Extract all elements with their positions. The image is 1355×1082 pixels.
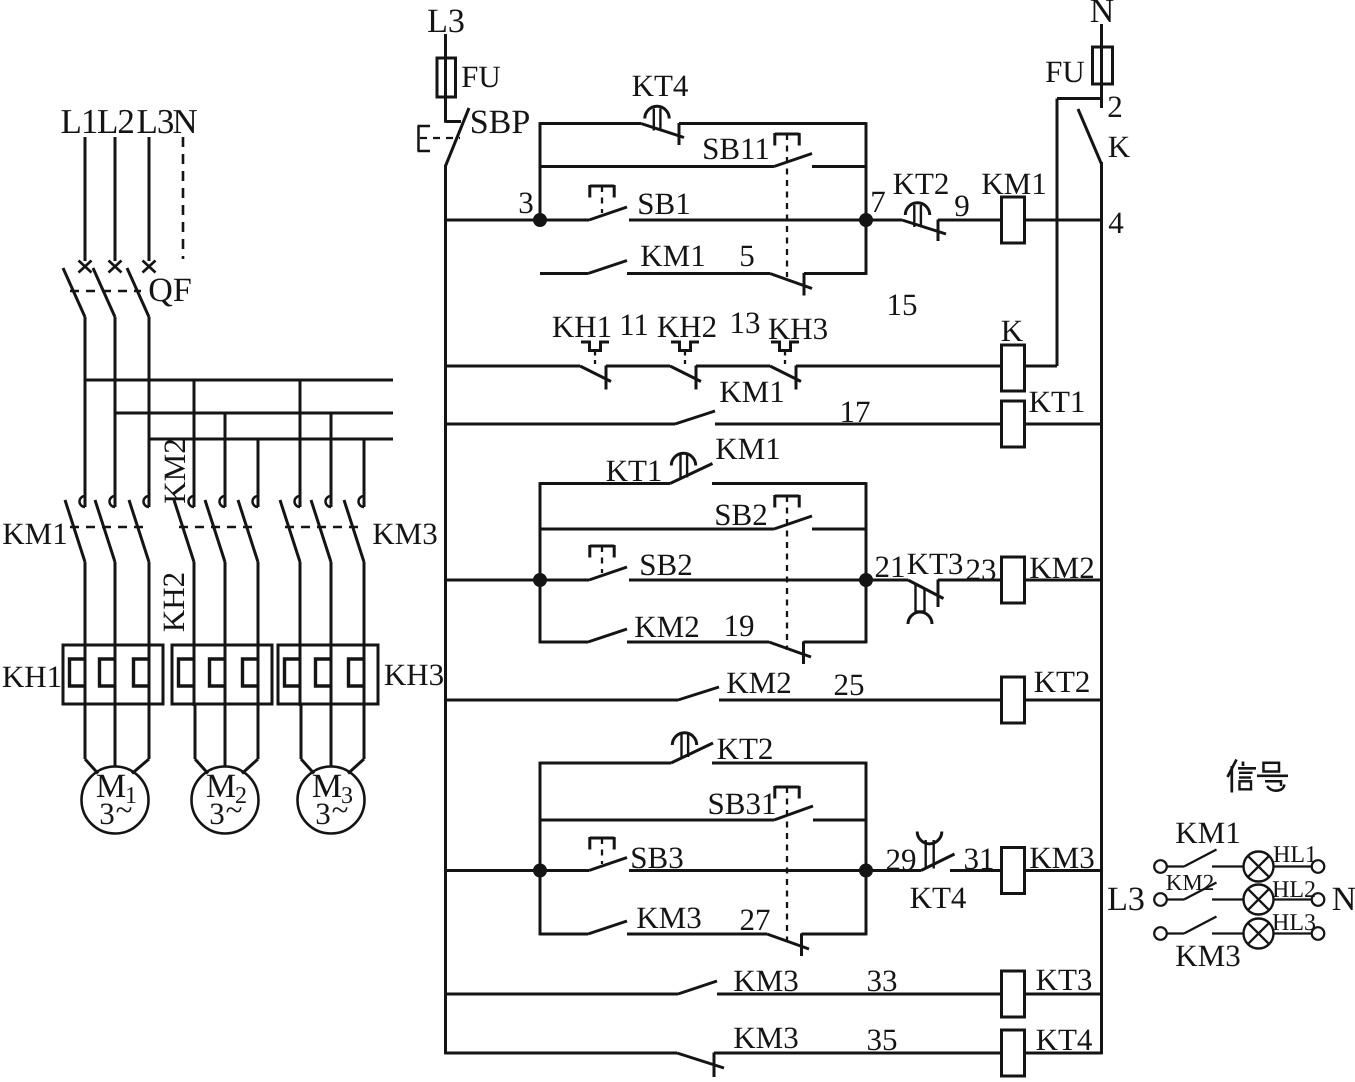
svg-text:SB1: SB1 [637,186,690,221]
wire row7 left [446,993,679,996]
svg-text:~: ~ [332,792,349,827]
svg-text:13: 13 [730,305,761,340]
wire row3 mid [715,423,1002,426]
motor M3 [300,704,303,759]
svg-text:KH2: KH2 [657,309,717,344]
contact KM1 NO (row 17) [675,411,715,424]
wire row8 right [1025,1052,1102,1055]
wire box1 top rail left [540,122,641,125]
svg-text:~: ~ [226,792,243,827]
wire QF2 to bus [114,317,117,414]
wire box3 right vertical [865,762,868,936]
signal lamp HL3 row [1154,927,1167,940]
wire QF1 to bus [84,317,87,381]
switch SBP foot [446,120,462,123]
KH3 heater element [316,659,332,686]
svg-text:N: N [172,102,197,141]
KH2 heater element [243,659,259,686]
wire box1 SB11 rail right [812,165,866,168]
pushbutton SB31 NO contact [775,786,799,789]
svg-text:K: K [1001,313,1024,348]
switch K blade [1078,109,1102,164]
svg-text:KM3: KM3 [1175,938,1240,973]
node row4 left [533,573,547,587]
wire contactor to heater [84,562,87,706]
contactor KM2 main contact pole 1 [193,493,196,507]
contactor KM3 main contact pole 3 [363,493,366,507]
svg-text:HL2: HL2 [1272,877,1316,903]
contactor KM1 main contact pole 3 [148,493,151,507]
wire box1 KM1 rail mid [627,272,770,275]
svg-text:4: 4 [1108,205,1124,240]
contactor KM2 main contact pole 3 [257,493,260,507]
node 3 [533,213,547,227]
wire row2 left [446,365,581,368]
svg-text:SB2: SB2 [639,547,692,582]
svg-text:SB11: SB11 [702,131,770,166]
wire drop to KM2 pole3 [257,439,260,496]
wire row4 right [1025,579,1102,582]
node 21 [859,573,873,587]
svg-text:KT4: KT4 [910,880,967,915]
fuse FU left [437,58,456,97]
wire row5 left [446,699,679,702]
wire box3 KM3 rail right [802,933,867,936]
svg-text:KM1: KM1 [715,431,780,466]
breaker QF pole 1 x-mark [79,261,92,273]
svg-text:~: ~ [116,792,133,827]
svg-text:KT1: KT1 [606,453,663,488]
svg-text:3: 3 [99,796,115,831]
contact KM3 NC (row 35) [677,1053,724,1068]
motor M1 [84,704,87,759]
wire row4 left [446,579,590,582]
breaker QF linkage dashed [70,290,141,292]
wire box3 top rail left [540,762,671,765]
wire L3 down to QF [148,137,151,261]
wire box2 KM2 rail mid [627,641,769,644]
wire box3 KM3 rail left [540,933,588,936]
wire box2 left vertical [539,482,542,643]
wire contactor to heater [330,562,333,706]
wire QF3 to bus [148,317,151,440]
wire contactor to heater [148,562,151,706]
svg-text:3: 3 [315,796,331,831]
svg-text:KH1: KH1 [2,659,62,694]
coil K [1002,345,1025,391]
wire contactor to heater [363,562,366,706]
contactor KM1 main contact pole 1 [84,493,87,507]
bus L2 horizontal [115,412,393,415]
wire box2 SB2 rail left [540,528,774,531]
svg-text:L2: L2 [97,102,134,141]
contactor KM2 main contact pole 2 [224,493,227,507]
wire drop to KM2 pole1 [193,380,196,496]
svg-text:KT2: KT2 [893,166,950,201]
node 7 [859,213,873,227]
motor M2 [194,704,197,759]
svg-text:HL1: HL1 [1273,842,1317,868]
wire contactor to heater [257,562,260,706]
wire row5 mid [719,699,1002,702]
coil KT3 [1002,971,1025,1017]
wire box2 KM2 rail right [804,641,867,644]
svg-text:KM2: KM2 [726,665,791,700]
breaker QF pole 3 blade [127,268,149,317]
svg-text:KM1: KM1 [2,516,67,551]
wire N dashed down [182,137,185,259]
wire drop to KM3 pole1 [299,380,302,496]
contactor KM3 main contact pole 2 [330,493,333,507]
wire row6 left [446,869,590,872]
svg-text:9: 9 [954,188,970,223]
wire left rail [444,165,447,1054]
svg-text:FU: FU [1045,54,1085,89]
svg-text:N: N [1332,881,1355,918]
svg-text:7: 7 [870,184,886,219]
switch SBP linkage dashed [420,137,460,139]
breaker QF pole 2 blade [93,268,115,317]
wire drop to KM2 pole2 [224,413,227,496]
wire N to fuse [1100,24,1103,47]
node 29 [859,864,873,878]
signal lamp HL1 row [1154,860,1167,873]
KH1 heater element [100,659,116,686]
wire contactor to heater [193,562,196,706]
svg-text:15: 15 [887,287,918,322]
wire row3 left [446,423,676,426]
wire row1 to coil [938,219,1002,222]
contactor KM3 linkage dashed [285,526,361,528]
wire row1 left [446,219,590,222]
svg-text:KT4: KT4 [632,68,689,103]
coil KM3 [1002,848,1025,894]
wire K coil to node2 branch [1025,365,1058,368]
svg-text:KM2: KM2 [157,438,192,503]
wire bus L3 to KM1 pole3 [148,439,151,496]
contact KT4 delayed NC [645,106,669,118]
wire row2 b [696,365,770,368]
svg-text:25: 25 [834,667,865,702]
svg-text:KT2: KT2 [717,731,774,766]
pushbutton SB2 linked NC contact [769,642,811,657]
svg-text:KT3: KT3 [907,546,964,581]
wire box3 left vertical [539,762,542,936]
svg-text:L3: L3 [137,102,174,141]
bus L3 horizontal [149,438,393,441]
svg-text:KM1: KM1 [1175,815,1240,850]
wire box1 right vertical [865,122,868,275]
wire row4 mid [629,579,908,582]
wire row2 c [796,365,1002,368]
breaker QF pole 1 blade [63,268,85,317]
svg-text:27: 27 [740,902,771,937]
svg-text:K: K [1108,129,1131,164]
wire box2 KM2 rail left [540,641,588,644]
svg-text:SB2: SB2 [714,497,767,532]
svg-text:19: 19 [724,608,755,643]
svg-text:KM3: KM3 [636,900,701,935]
svg-text:3: 3 [518,185,534,220]
contact KH3 NC [771,342,799,351]
wire fuse to node 2 [1100,84,1103,108]
svg-text:L1: L1 [61,102,98,141]
pushbutton SB2 start [590,545,614,548]
contact KT3 delayed NC [908,580,944,599]
wire row8 left [446,1052,678,1055]
coil KT1 [1002,401,1025,447]
wire row7 right [1025,993,1102,996]
coil KM1 [1002,197,1025,243]
svg-text:5: 5 [739,238,755,273]
wire row6 mid [629,869,921,872]
wire right rail [1100,162,1103,1054]
contactor KM1 main contact pole 2 [114,493,117,507]
contact KT2 delayed NO [672,733,696,745]
svg-text:KH1: KH1 [552,309,612,344]
contact KM3 NO (row 33) [678,981,717,994]
wire box2 top rail right [712,482,866,485]
wire L1 down to QF [84,137,87,261]
svg-text:KT1: KT1 [1029,384,1086,419]
wire row7 mid [717,993,1002,996]
wire box2 SB2 rail right [812,528,866,531]
contact KH1 NC [581,342,609,351]
svg-text:29: 29 [886,842,917,877]
svg-text:KM2: KM2 [1166,870,1215,895]
wire box3 SB31 rail left [540,819,774,822]
pushbutton SB11 linked NC contact [770,274,812,289]
svg-text:QF: QF [148,272,191,309]
wire row3 right [1025,423,1102,426]
wire row1 to node 4 [1025,219,1102,222]
wire box1 left vertical [539,122,542,220]
bus L1 horizontal [85,379,393,382]
pushbutton SB31 linked NC contact [767,934,809,949]
wire drop to KM3 pole3 [363,439,366,496]
svg-text:KH3: KH3 [384,657,444,692]
contact KM2 self-hold NO [588,629,627,642]
contact KT2 delayed NC [905,203,929,215]
wire row1 mid [629,219,902,222]
switch SBP operator E [417,126,420,151]
svg-text:2: 2 [1107,89,1123,124]
wire box1 SB11 rail left [540,165,774,168]
wire row2 a [606,365,670,368]
node row6 left [533,864,547,878]
breaker QF pole 2 x-mark [109,261,122,273]
wire node 2 branch down to K coil [1056,99,1059,367]
wire node 2 tee left [1057,97,1102,100]
wire row4 to coil [938,579,1002,582]
svg-text:KH3: KH3 [768,311,828,346]
coil KT4 [1002,1030,1025,1076]
contact KH2 NC [671,342,699,351]
wire box1 top rail right [679,122,866,125]
svg-text:KM1: KM1 [719,374,784,409]
contactor KM1 linkage dashed [70,526,146,528]
svg-text:SBP: SBP [470,104,531,141]
pushbutton SB1 [590,185,614,188]
svg-text:KM3: KM3 [733,1020,798,1055]
wire box1 KM1 rail right [804,272,866,275]
svg-text:HL3: HL3 [1272,910,1316,936]
wire contactor to heater [224,562,227,706]
svg-text:SB31: SB31 [708,786,777,821]
svg-text:23: 23 [966,552,997,587]
wire box3 KM3 rail mid [627,933,767,936]
wire fuse to SBP [444,97,447,123]
pushbutton SB3 start [590,837,614,840]
wire row8 mid [714,1052,1002,1055]
wire box1 KM1 rail left [540,272,588,275]
wire bus L2 to KM1 pole2 [114,413,117,496]
wire L2 down to QF [114,137,117,261]
svg-text:KT3: KT3 [1036,962,1093,997]
wire drop to KM3 pole2 [330,413,333,496]
thermal relay KH3 box [278,645,378,704]
wire row6 to coil [950,869,1002,872]
svg-text:21: 21 [875,549,906,584]
KH1 heater element [134,659,150,686]
wire box2 top rail left [540,482,670,485]
switch SBP blade [446,108,470,166]
wire L3 to fuse [444,34,447,58]
wire contactor to heater [114,562,117,706]
thermal relay KH2 box [172,645,272,704]
KH2 heater element [179,659,195,686]
svg-text:KT2: KT2 [1034,664,1091,699]
breaker QF pole 3 x-mark [143,261,156,273]
svg-text:3: 3 [209,796,225,831]
wire contactor to heater [299,562,302,706]
contactor KM3 main contact pole 1 [299,493,302,507]
signal title 信号 [1228,760,1237,778]
contact KT4 delayed NO [917,832,942,844]
wire bus L1 to KM1 pole1 [84,380,87,496]
wire row5 right [1025,699,1102,702]
wire box2 right vertical [865,482,868,643]
contact KM2 NO (row 25) [678,687,719,700]
signal lamp HL2 row [1154,893,1167,906]
coil KM2 [1002,557,1025,603]
KH3 heater element [285,659,301,686]
pushbutton SB2 NO contact (upper) [775,495,799,498]
wire box3 top rail right [712,762,866,765]
contactor KM2 linkage dashed [179,526,255,528]
contact KM1 self-hold NO [588,261,627,274]
contact KM3 self-hold NO [588,921,627,934]
thermal relay KH1 box [63,645,163,704]
wire row6 right [1025,869,1102,872]
KH1 heater element [70,659,86,686]
svg-text:KM1: KM1 [981,166,1046,201]
svg-text:L3: L3 [1107,881,1145,918]
coil KT2 [1002,677,1025,723]
pushbutton SB11 NO contact [775,133,799,136]
KH2 heater element [210,659,226,686]
svg-text:11: 11 [619,307,649,342]
fuse FU right [1093,47,1113,84]
contact KT1 delayed NO [671,453,695,465]
svg-text:KM3: KM3 [372,516,437,551]
svg-text:KM1: KM1 [640,238,705,273]
KH3 heater element [349,659,365,686]
svg-text:FU: FU [461,59,501,94]
svg-text:KH2: KH2 [156,572,191,632]
svg-text:KM2: KM2 [634,609,699,644]
wire box3 SB31 rail right [813,819,866,822]
